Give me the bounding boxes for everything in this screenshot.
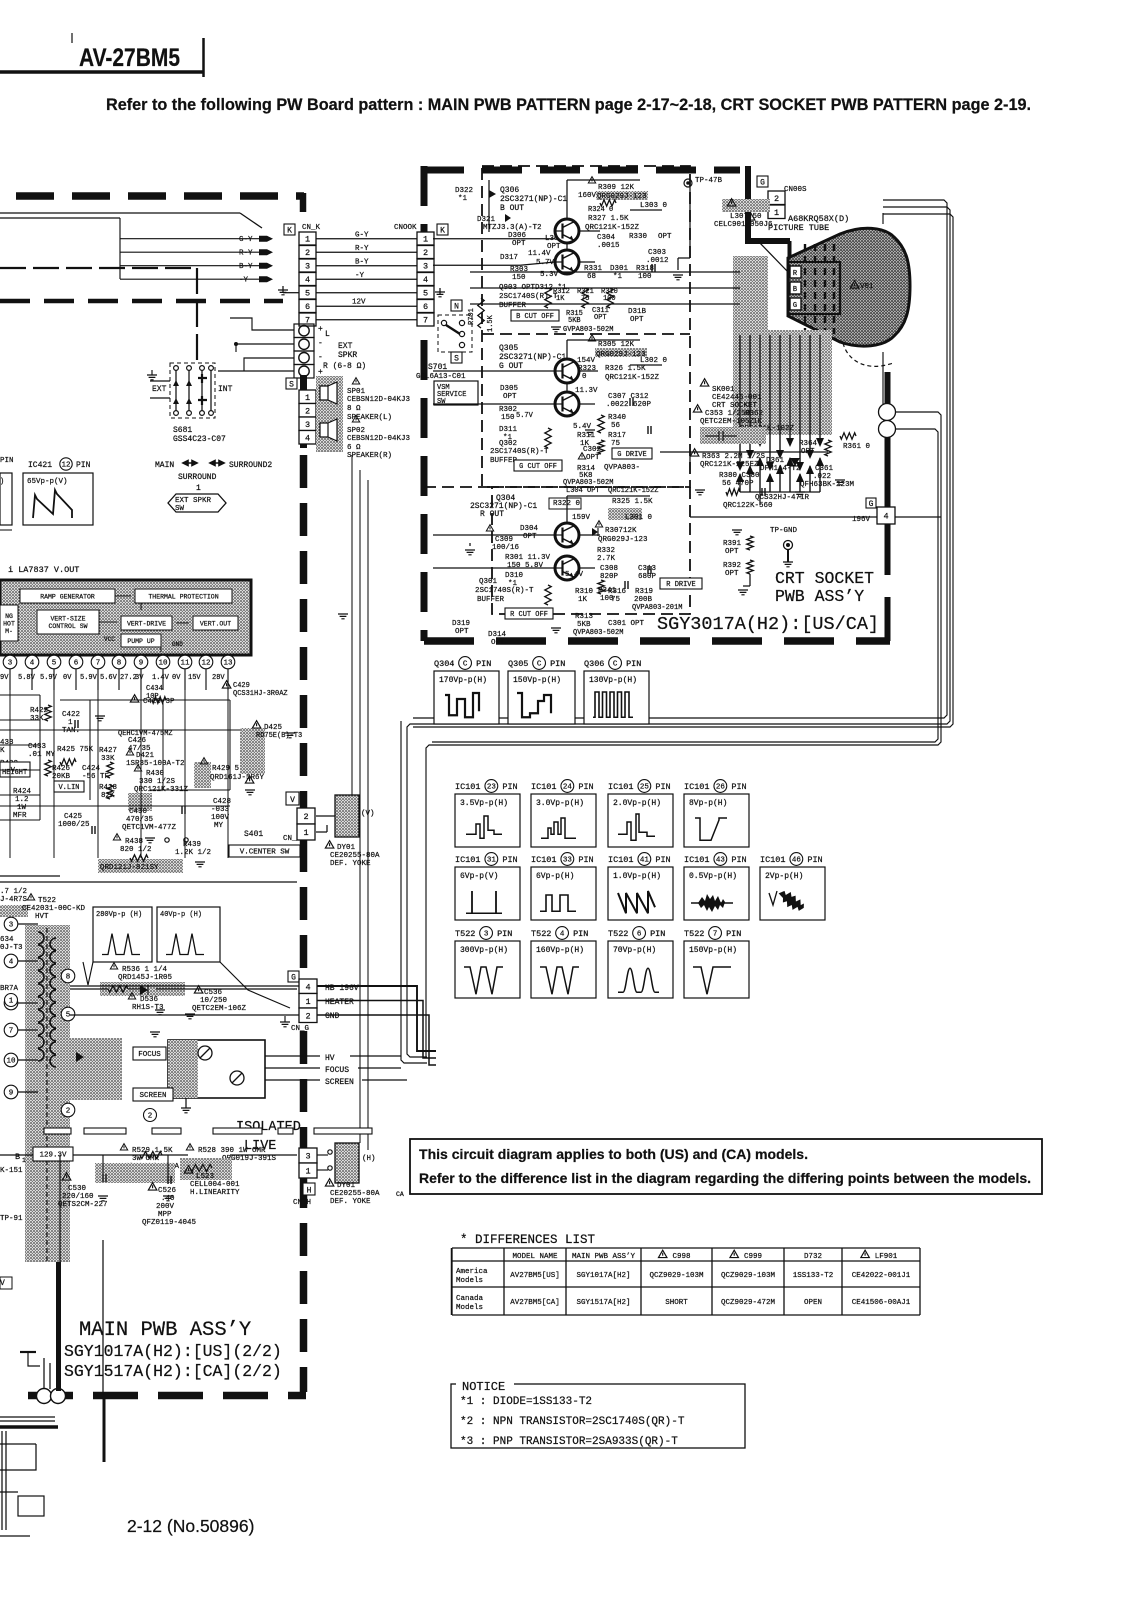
svg-text:C998: C998 [672,1253,690,1261]
svg-text:33: 33 [563,857,573,865]
svg-text:3.5Vp-p(H): 3.5Vp-p(H) [460,799,508,808]
svg-text:C526: C526 [158,1187,177,1195]
svg-text:L303 0: L303 0 [640,202,668,210]
svg-text:1: 1 [303,828,308,838]
svg-text:QRD161J-5R6Y: QRD161J-5R6Y [210,774,265,782]
svg-text:D536: D536 [140,996,159,1004]
svg-text:R438: R438 [125,838,143,846]
svg-text:*1: *1 [458,195,468,203]
svg-text:OPT: OPT [586,454,600,462]
svg-text:43: 43 [716,857,726,865]
svg-text:26: 26 [716,784,726,792]
svg-text:4: 4 [305,433,310,443]
svg-text:SP01: SP01 [347,388,366,396]
svg-text:G DRIVE: G DRIVE [617,451,646,459]
svg-text:4: 4 [305,275,310,285]
svg-text:R DRIVE: R DRIVE [666,581,695,589]
svg-text:R332: R332 [597,547,615,555]
svg-text:820P: 820P [600,573,619,581]
svg-text:AV-27BM5: AV-27BM5 [79,44,180,72]
svg-text:Canada: Canada [456,1295,484,1303]
svg-text:D732: D732 [804,1253,822,1261]
svg-text:Q306: Q306 [584,659,604,669]
svg-text:3: 3 [423,262,428,272]
svg-text:5.6V: 5.6V [100,674,118,682]
svg-text:1: 1 [305,997,310,1007]
svg-text:G: G [760,179,765,188]
svg-text:QRD121J-821SY: QRD121J-821SY [100,864,159,872]
svg-text:TP-47B: TP-47B [695,177,723,185]
svg-text:4: 4 [560,931,565,939]
svg-text:1: 1 [423,235,428,245]
svg-text:300Vp-p(H): 300Vp-p(H) [460,946,508,955]
svg-text:280Vp-p (H): 280Vp-p (H) [96,911,142,919]
svg-text:R302: R302 [499,406,517,414]
svg-text:R310: R310 [575,588,594,596]
svg-text:OPT: OPT [725,570,739,578]
svg-text:QRG029J-123: QRG029J-123 [596,351,646,359]
svg-text:220/160: 220/160 [62,1193,94,1201]
svg-text:R380 C380: R380 C380 [719,472,760,480]
svg-text:C353 1/250: C353 1/250 [705,410,751,418]
svg-text:2SC3271(NP)-C1: 2SC3271(NP)-C1 [499,353,566,362]
svg-text:PIN: PIN [726,929,741,939]
svg-text:QCS32HJ-471R: QCS32HJ-471R [755,494,810,502]
svg-text:R536 1 1/4: R536 1 1/4 [122,966,168,974]
svg-text:OPT: OPT [594,314,607,322]
svg-text:46: 46 [792,857,802,865]
svg-text:2: 2 [305,406,310,416]
svg-text:1: 1 [68,719,73,727]
svg-text:C307 C312: C307 C312 [608,393,649,401]
svg-text:MPP: MPP [158,1211,172,1219]
svg-text:R427: R427 [99,747,117,755]
svg-text:LF901: LF901 [875,1253,898,1261]
svg-text:DEF. YOKE: DEF. YOKE [330,860,371,868]
svg-text:C: C [537,661,542,669]
svg-text:5.7V: 5.7V [516,412,534,420]
svg-text:C422: C422 [62,711,80,719]
svg-text:OPEN: OPEN [804,1299,822,1307]
svg-text:C999: C999 [744,1253,762,1261]
svg-text:SPEAKER(L): SPEAKER(L) [347,414,392,422]
svg-text:100/16: 100/16 [492,544,520,552]
svg-text:3: 3 [9,922,14,930]
svg-text:VERT-DRIVE: VERT-DRIVE [127,620,166,627]
svg-text:IC101: IC101 [684,782,710,792]
svg-text:3: 3 [305,1152,310,1162]
svg-text:R323: R323 [578,365,597,373]
svg-text:SPEAKER(R): SPEAKER(R) [347,452,392,460]
svg-text:TP-GND: TP-GND [770,527,798,535]
svg-text:1SS133-T2: 1SS133-T2 [793,1272,834,1280]
svg-text:1K: 1K [556,295,565,303]
svg-text:): ) [0,478,4,486]
svg-text:MODEL NAME: MODEL NAME [512,1253,558,1261]
svg-text:QVPA803-: QVPA803- [604,464,640,472]
svg-text:-: - [318,353,323,362]
svg-text:Q304: Q304 [434,659,454,669]
svg-text:CN_K: CN_K [302,224,321,232]
svg-text:10: 10 [6,1058,16,1066]
svg-text:NOTICE: NOTICE [462,1380,505,1394]
svg-text:154V: 154V [577,357,596,365]
svg-text:Refer to the following PW Boar: Refer to the following PW Board pattern … [106,96,1031,114]
svg-text:10: 10 [158,660,168,668]
svg-text:CRT SOCKET: CRT SOCKET [775,569,874,588]
svg-text:MY: MY [214,822,224,830]
svg-text:R-Y: R-Y [239,250,253,258]
svg-text:3V: 3V [135,674,144,682]
svg-text:EXT: EXT [338,342,353,351]
svg-text:4: 4 [883,512,888,522]
svg-text:433: 433 [0,739,14,747]
svg-text:130Vp-p(H): 130Vp-p(H) [589,676,637,685]
svg-text:56 470P: 56 470P [722,480,754,488]
svg-text:C433: C433 [28,743,47,751]
svg-text:R319: R319 [635,588,653,596]
svg-text:OPT: OPT [630,316,644,324]
svg-text:EXT: EXT [152,385,167,394]
svg-text:1K: 1K [753,418,763,426]
svg-text:QCS31HJ-3R0AZ: QCS31HJ-3R0AZ [233,690,288,698]
svg-text:1K: 1K [578,596,588,604]
svg-text:634: 634 [0,936,14,944]
svg-text:2SC1740S(R)-T: 2SC1740S(R)-T [475,587,534,595]
svg-text:N: N [454,303,459,312]
svg-text:R324 0: R324 0 [588,206,613,214]
svg-text:S: S [289,381,294,390]
svg-text:150: 150 [501,414,515,422]
svg-text:V01: V01 [860,283,874,291]
svg-text:-Y: -Y [355,272,365,280]
svg-text:K: K [440,227,445,236]
svg-text:.0015: .0015 [597,242,620,250]
svg-text:G-Y: G-Y [355,232,369,240]
svg-text:75: 75 [611,596,621,604]
svg-text:2: 2 [305,248,310,258]
svg-text:RD75E(B)-T3: RD75E(B)-T3 [256,732,302,740]
svg-text:C303: C303 [648,249,667,257]
svg-text:R301 11.3V: R301 11.3V [505,554,551,562]
svg-text:C: C [613,661,618,669]
svg-text:R326 1.5K: R326 1.5K [605,365,646,373]
svg-text:QVPA803-502M: QVPA803-502M [573,629,623,637]
svg-text:Refer to the difference list i: Refer to the difference list in the diag… [419,1170,1031,1186]
svg-text:0: 0 [582,373,587,381]
svg-text:G: G [291,974,296,983]
svg-text:GSL6A13-C01: GSL6A13-C01 [416,373,466,381]
svg-text:7: 7 [423,316,428,326]
svg-text:13: 13 [223,660,233,668]
svg-text:41: 41 [640,857,650,865]
svg-text:EXT SPKR: EXT SPKR [175,497,212,505]
svg-text:150: 150 [512,274,526,282]
svg-text:4: 4 [423,275,428,285]
svg-text:8Vp-p(H): 8Vp-p(H) [689,799,727,808]
svg-text:SHORT: SHORT [665,1299,688,1307]
svg-text:B: B [793,286,797,294]
svg-text:D31B: D31B [628,308,647,316]
svg-text:D425: D425 [264,724,283,732]
svg-text:+: + [318,325,323,334]
svg-text:2: 2 [148,1113,153,1121]
svg-text:C301 OPT: C301 OPT [608,620,645,628]
svg-text:G: G [869,500,874,509]
svg-text:FOCUS: FOCUS [325,1066,349,1075]
svg-text:H: H [307,1186,312,1195]
svg-text:R327 1.5K: R327 1.5K [588,215,629,223]
svg-text:T522: T522 [455,929,475,939]
svg-text:PIN: PIN [502,855,517,865]
svg-text:CE41506-00AJ1: CE41506-00AJ1 [852,1299,911,1307]
svg-text:PIN: PIN [76,461,91,470]
svg-text:C434: C434 [146,685,163,693]
svg-text:K: K [287,227,292,236]
svg-text:11.3V: 11.3V [575,387,598,395]
svg-text:1: 1 [305,235,310,245]
svg-text:75: 75 [611,440,621,448]
svg-text:SW: SW [437,398,446,406]
svg-text:G: G [793,302,797,310]
svg-text:200B: 200B [634,596,653,604]
svg-text:D319: D319 [452,620,470,628]
svg-text:3: 3 [305,420,310,430]
svg-text:PIN: PIN [655,855,670,865]
svg-text:6 Ω: 6 Ω [347,444,361,452]
svg-text:PIN: PIN [573,929,588,939]
svg-text:68: 68 [587,273,596,281]
svg-text:24: 24 [563,784,573,792]
svg-text:8: 8 [66,974,71,982]
svg-text:R430: R430 [146,770,165,778]
svg-text:150Vp-p(H): 150Vp-p(H) [689,946,737,955]
svg-text:B CUT OFF: B CUT OFF [516,313,554,321]
svg-text:11.4V: 11.4V [528,250,551,258]
svg-text:6: 6 [305,302,310,312]
svg-text:2Vp-p(H): 2Vp-p(H) [765,872,803,881]
svg-text:160Vp-p(H): 160Vp-p(H) [536,946,584,955]
svg-text:3: 3 [484,931,489,939]
svg-text:R313: R313 [575,613,594,621]
svg-text:J-4R7S: J-4R7S [0,896,28,904]
svg-text:SP02: SP02 [347,427,365,435]
svg-text:GVPA803-502M: GVPA803-502M [563,326,613,334]
svg-text:C308: C308 [600,565,618,573]
svg-text:TP-91: TP-91 [0,1215,23,1223]
svg-text:0.5Vp-p(H): 0.5Vp-p(H) [689,872,737,881]
svg-text:10/250: 10/250 [200,997,228,1005]
svg-text:1000/25: 1000/25 [58,821,90,829]
svg-text:CE20255-80A: CE20255-80A [330,1190,380,1198]
svg-text:1.4V: 1.4V [152,674,170,682]
svg-text:G CUT OFF: G CUT OFF [519,463,557,471]
svg-text:40Vp-p (H): 40Vp-p (H) [160,911,202,919]
svg-text:31: 31 [487,857,497,865]
svg-text:1SR35-100A-T2: 1SR35-100A-T2 [126,760,185,768]
svg-text:CA: CA [396,1191,404,1198]
svg-text:5KB: 5KB [568,317,581,325]
svg-text:OPT: OPT [491,639,505,647]
svg-text:T522: T522 [38,897,56,905]
svg-text:SK001: SK001 [712,386,735,394]
svg-text:R OUT: R OUT [480,510,504,519]
svg-text:1: 1 [305,393,310,403]
svg-text:C429: C429 [233,682,250,690]
svg-text:VCC: VCC [104,636,115,643]
svg-text:CE42446-001: CE42446-001 [712,394,762,402]
svg-text:0V: 0V [63,674,72,682]
svg-text:R361 0: R361 0 [843,443,871,451]
svg-text:*1: *1 [613,273,623,281]
svg-text:R364: R364 [799,440,818,448]
svg-text:R439: R439 [183,841,201,849]
svg-text:33K: 33K [101,755,115,763]
svg-text:GND: GND [325,1012,340,1021]
svg-text:IC101: IC101 [608,782,634,792]
svg-text:PUMP UP: PUMP UP [127,638,154,645]
svg-text:129.3V: 129.3V [39,1152,67,1160]
svg-text:CN00S: CN00S [784,186,807,194]
svg-text:HV: HV [325,1054,335,1063]
svg-text:5: 5 [52,660,57,668]
svg-text:R325 1.5K: R325 1.5K [612,498,653,506]
svg-text:56: 56 [611,422,621,430]
svg-text:T522: T522 [684,929,704,939]
svg-text:V: V [290,796,295,805]
svg-text:VERT.OUT: VERT.OUT [200,620,231,627]
svg-text:CEBSN12D-04KJ3: CEBSN12D-04KJ3 [347,396,411,404]
svg-text:GND: GND [172,641,183,648]
svg-text:CE42022-001J1: CE42022-001J1 [852,1272,911,1280]
svg-text:*2 : NPN TRANSISTOR=2SC1740S(Q: *2 : NPN TRANSISTOR=2SC1740S(QR)-T [460,1416,685,1428]
svg-text:8: 8 [117,660,122,668]
svg-text:i LA7837 V.OUT: i LA7837 V.OUT [8,565,79,575]
svg-text:(H): (H) [362,1155,376,1163]
svg-text:3: 3 [305,262,310,272]
svg-text:OPT: OPT [658,233,672,241]
svg-text:SGY1017A[H2]: SGY1017A[H2] [576,1272,630,1280]
svg-text:RH1S-T3: RH1S-T3 [132,1004,164,1012]
svg-text:-: - [318,339,323,348]
svg-text:5.9V: 5.9V [80,674,98,682]
svg-text:70Vp-p(H): 70Vp-p(H) [613,946,656,955]
svg-text:PICTURE TUBE: PICTURE TUBE [768,223,829,233]
svg-text:1.2K 1/2: 1.2K 1/2 [175,849,211,857]
svg-text:1: 1 [305,1167,310,1177]
svg-text:5.4V: 5.4V [565,571,584,579]
svg-text:100: 100 [638,273,652,281]
svg-text:1W: 1W [17,804,27,812]
svg-text:470/35: 470/35 [126,816,154,824]
svg-text:QEHC1VM-475MZ: QEHC1VM-475MZ [118,730,173,738]
svg-text:MAIN PWB ASS’Y: MAIN PWB ASS’Y [572,1253,636,1261]
svg-text:PWB ASS’Y: PWB ASS’Y [775,587,864,606]
svg-text:CE20255-80A: CE20255-80A [330,852,380,860]
svg-text:1.5K: 1.5K [487,314,495,332]
svg-text:H.LINEARITY: H.LINEARITY [190,1189,240,1197]
svg-text:T522: T522 [608,929,628,939]
svg-text:HVT: HVT [35,913,49,921]
svg-text:QRC121K-225EZ: QRC121K-225EZ [700,461,759,469]
svg-text:15V: 15V [188,674,201,682]
svg-text:.0012: .0012 [646,257,669,265]
svg-text:1: 1 [22,1157,26,1164]
svg-text:CONTROL SW: CONTROL SW [48,623,87,630]
svg-text:R303: R303 [510,266,529,274]
svg-text:SW: SW [175,505,185,513]
svg-text:R30712K: R30712K [605,527,637,535]
svg-text:5: 5 [66,1012,71,1020]
svg-text:M-: M- [5,628,13,635]
svg-text:R309 12K: R309 12K [598,184,635,192]
svg-text:159V: 159V [572,514,591,522]
svg-text:12V: 12V [352,299,366,307]
svg-text:-033: -033 [211,806,230,814]
svg-text:S401: S401 [244,830,263,839]
svg-text:QETC2EM-106Z: QETC2EM-106Z [192,1005,247,1013]
svg-text:K: K [0,747,5,755]
svg-text:2: 2 [303,812,308,822]
svg-text:C426: C426 [128,737,147,745]
svg-text:CELL004-001: CELL004-001 [190,1181,240,1189]
svg-text:D321: D321 [477,216,496,224]
svg-text:6: 6 [423,302,428,312]
svg-text:6: 6 [637,931,642,939]
svg-text:2: 2 [66,1108,71,1116]
svg-text:QCZ9029-472M: QCZ9029-472M [721,1299,776,1307]
svg-text:330 1/2S: 330 1/2S [139,778,176,786]
svg-text:DY01: DY01 [337,844,356,852]
svg-text:2: 2 [774,194,779,204]
svg-text:OPT: OPT [523,533,537,541]
svg-text:7: 7 [713,931,718,939]
svg-text:This circuit diagram applies t: This circuit diagram applies to both (US… [419,1146,808,1162]
svg-text:CNOOK: CNOOK [394,224,417,232]
svg-text:PIN: PIN [497,929,512,939]
svg-text:9V: 9V [0,674,9,682]
svg-text:SURROUND: SURROUND [178,473,217,482]
svg-text:C309: C309 [495,536,513,544]
svg-text:AV27BM5[CA]: AV27BM5[CA] [510,1299,560,1307]
svg-text:QRD145J-1R05: QRD145J-1R05 [118,974,173,982]
svg-text:B-Y: B-Y [355,259,369,267]
svg-text:4: 4 [305,982,310,992]
svg-text:-56 TF: -56 TF [82,773,109,781]
svg-text:* DIFFERENCES LIST: * DIFFERENCES LIST [460,1233,596,1247]
svg-text:QVPA803-201M: QVPA803-201M [632,604,682,612]
svg-text:820 1/2: 820 1/2 [120,846,152,854]
svg-text:1.2: 1.2 [15,796,29,804]
svg-text:23: 23 [487,784,497,792]
svg-text:4: 4 [30,660,35,668]
svg-text:CELC901-050J6: CELC901-050J6 [714,221,773,229]
svg-text:PIN: PIN [0,457,14,465]
svg-text:V.CENTER SW: V.CENTER SW [240,849,290,857]
svg-text:V.LIN: V.LIN [58,784,79,792]
svg-text:R425 75K: R425 75K [57,746,94,754]
svg-text:6: 6 [74,660,79,668]
svg-text:9: 9 [9,1090,14,1098]
svg-text:QVPA803-502M: QVPA803-502M [563,479,613,487]
svg-text:HOT: HOT [3,620,15,627]
svg-text:NG: NG [5,613,13,620]
svg-text:R330: R330 [629,233,648,241]
svg-text:B OUT: B OUT [500,204,524,213]
svg-text:D317: D317 [500,254,518,262]
svg-text:SPKR: SPKR [338,351,357,360]
svg-text:.0022 620P: .0022 620P [606,401,652,409]
